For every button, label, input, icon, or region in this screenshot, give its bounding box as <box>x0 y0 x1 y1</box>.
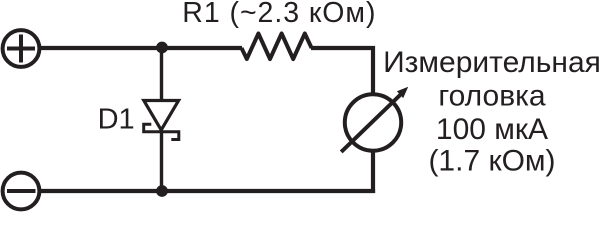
diode D1 (zener) <box>144 101 179 140</box>
resistor R1 <box>242 34 312 60</box>
meter M1 (measuring head) <box>341 87 408 152</box>
node junction dot bottom (D1 cathode tap) <box>156 185 168 197</box>
terminal - (negative input) <box>3 173 40 210</box>
svg-text:R1 (~2.3 кОм): R1 (~2.3 кОм) <box>182 0 376 29</box>
svg-text:Измерительная: Измерительная <box>383 46 599 79</box>
node junction dot top (D1 anode tap) <box>156 42 168 54</box>
value label meter annotation <box>383 46 599 177</box>
wire top rail from + terminal to resistor R1 <box>39 46 242 50</box>
wire D1 cathode lead <box>160 132 163 193</box>
svg-text:головка: головка <box>438 79 546 112</box>
wire D1 anode lead <box>160 48 163 102</box>
wire from meter bottom to bottom rail <box>371 150 375 193</box>
svg-text:100 мкА: 100 мкА <box>436 113 548 146</box>
wire from resistor R1 to meter top (elbow) <box>311 48 373 95</box>
svg-text:D1: D1 <box>98 103 135 135</box>
terminal + (positive input) <box>3 30 40 67</box>
wire bottom rail from - terminal to meter branch <box>39 189 375 193</box>
svg-text:(1.7 кОм): (1.7 кОм) <box>428 144 555 177</box>
